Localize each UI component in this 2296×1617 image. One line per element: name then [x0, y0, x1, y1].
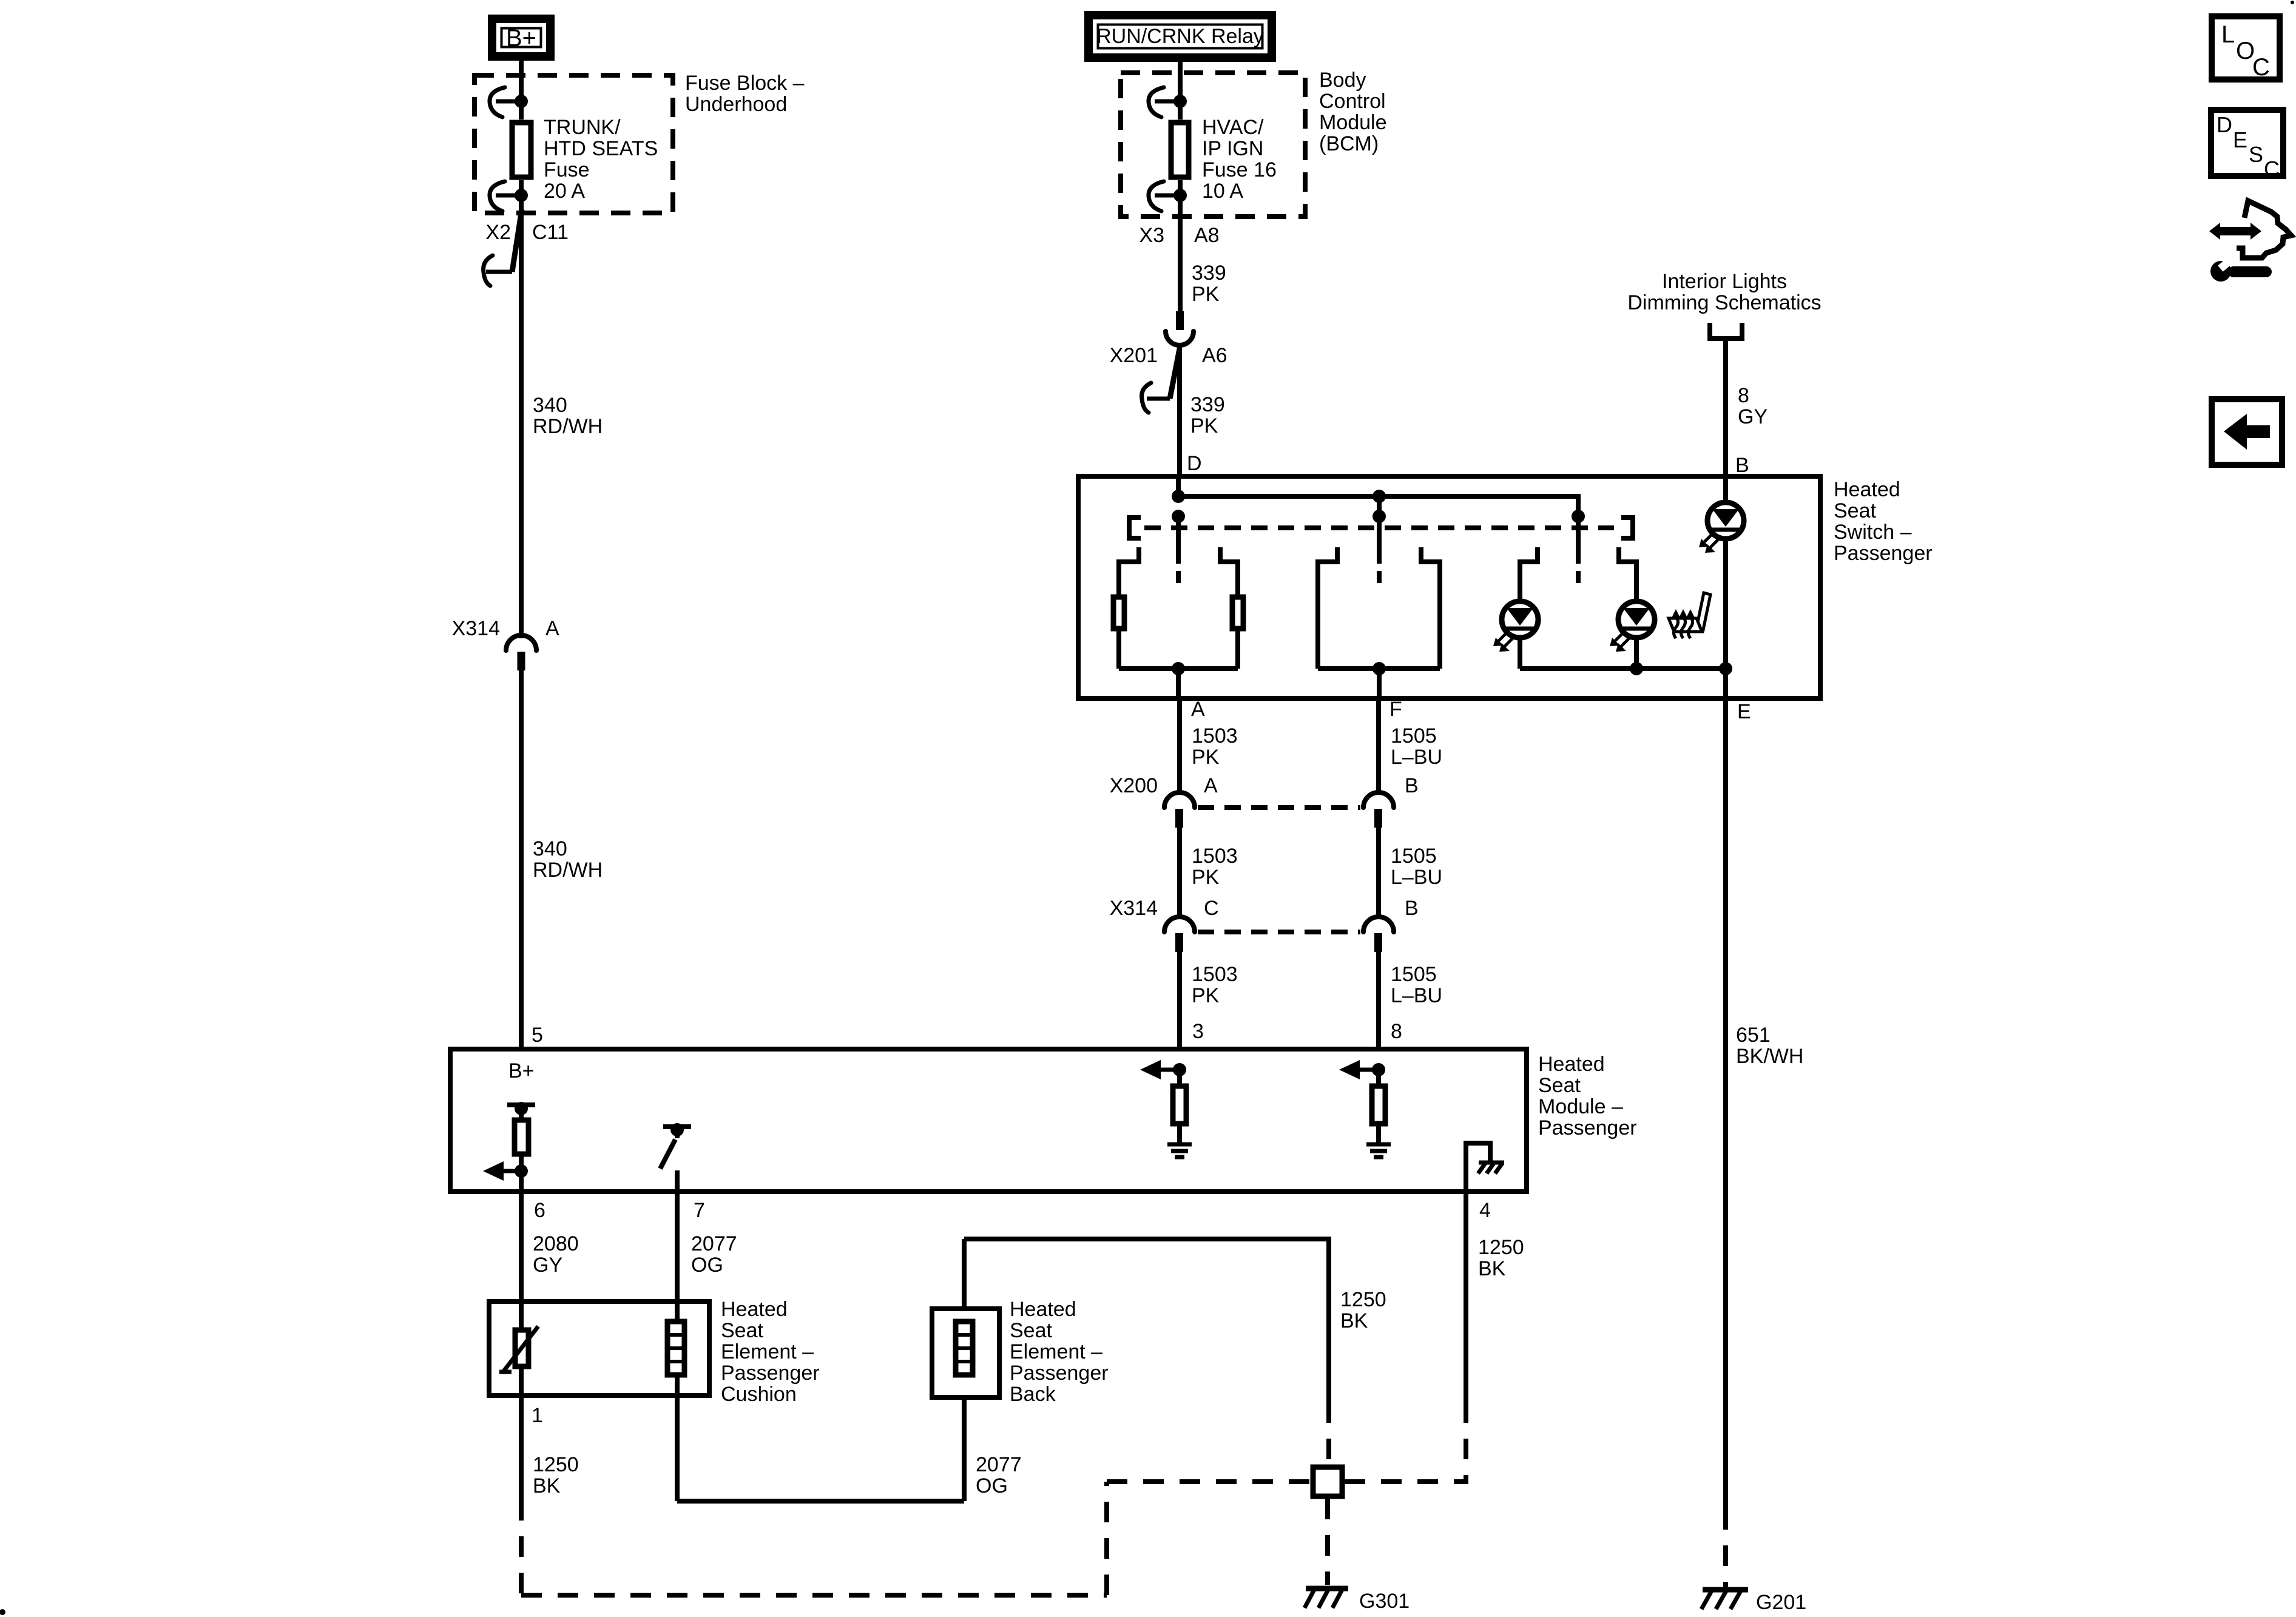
svg-text:X314: X314 — [452, 617, 500, 640]
svg-text:1250: 1250 — [533, 1453, 579, 1476]
svg-text:A: A — [1191, 698, 1205, 721]
svg-text:Element –: Element – — [1010, 1340, 1102, 1363]
svg-text:Passenger: Passenger — [1538, 1116, 1637, 1139]
svg-text:L: L — [2221, 21, 2235, 48]
svg-text:651: 651 — [1736, 1024, 1771, 1047]
svg-text:A: A — [545, 617, 559, 640]
svg-text:Heated: Heated — [721, 1298, 788, 1321]
svg-text:E: E — [1737, 700, 1751, 723]
svg-text:Heated: Heated — [1834, 478, 1900, 501]
svg-text:Underhood: Underhood — [685, 93, 787, 116]
svg-text:Fuse 16: Fuse 16 — [1202, 158, 1277, 181]
svg-text:20 A: 20 A — [544, 180, 585, 203]
svg-text:PK: PK — [1190, 414, 1218, 437]
svg-text:Seat: Seat — [721, 1319, 763, 1342]
svg-text:Switch –: Switch – — [1834, 521, 1912, 544]
svg-text:X3: X3 — [1139, 224, 1164, 247]
svg-text:F: F — [1389, 698, 1402, 721]
svg-text:Passenger: Passenger — [1834, 542, 1933, 565]
svg-text:Seat: Seat — [1010, 1319, 1052, 1342]
svg-text:HVAC/: HVAC/ — [1202, 116, 1264, 139]
svg-text:TRUNK/: TRUNK/ — [544, 116, 621, 139]
svg-text:B+: B+ — [506, 25, 536, 52]
svg-text:PK: PK — [1192, 866, 1220, 889]
svg-text:5: 5 — [532, 1024, 543, 1047]
svg-text:C: C — [2264, 157, 2280, 181]
svg-text:OG: OG — [976, 1474, 1008, 1497]
svg-text:A6: A6 — [1202, 344, 1227, 367]
svg-text:Heated: Heated — [1010, 1298, 1076, 1321]
svg-text:BK: BK — [533, 1474, 561, 1497]
svg-text:Interior Lights: Interior Lights — [1662, 270, 1787, 293]
svg-text:L–BU: L–BU — [1391, 746, 1442, 769]
svg-text:6: 6 — [534, 1199, 545, 1222]
svg-text:1505: 1505 — [1391, 724, 1437, 748]
svg-text:8: 8 — [1391, 1020, 1402, 1043]
svg-text:1503: 1503 — [1192, 724, 1238, 748]
svg-text:RUN/CRNK Relay: RUN/CRNK Relay — [1096, 25, 1264, 48]
svg-text:C: C — [2252, 54, 2270, 81]
svg-text:S: S — [2249, 142, 2263, 167]
svg-text:G301: G301 — [1359, 1590, 1410, 1613]
svg-text:Fuse Block –: Fuse Block – — [685, 72, 805, 95]
svg-text:Seat: Seat — [1834, 499, 1876, 522]
svg-text:B: B — [1735, 454, 1749, 477]
svg-text:RD/WH: RD/WH — [533, 859, 603, 882]
svg-text:C: C — [1204, 897, 1219, 920]
svg-text:1250: 1250 — [1478, 1236, 1524, 1259]
svg-text:PK: PK — [1192, 984, 1220, 1007]
svg-text:Seat: Seat — [1538, 1074, 1581, 1097]
svg-text:2080: 2080 — [533, 1232, 579, 1255]
svg-text:D: D — [1187, 452, 1202, 475]
svg-text:B+: B+ — [508, 1059, 535, 1082]
svg-text:Cushion: Cushion — [721, 1383, 797, 1406]
svg-text:PK: PK — [1192, 283, 1220, 306]
svg-text:8: 8 — [1738, 384, 1749, 407]
svg-text:L–BU: L–BU — [1391, 984, 1442, 1007]
svg-text:E: E — [2233, 127, 2247, 152]
svg-text:G201: G201 — [1756, 1591, 1806, 1614]
svg-text:339: 339 — [1192, 262, 1226, 285]
svg-text:OG: OG — [691, 1254, 723, 1277]
svg-text:PK: PK — [1192, 746, 1220, 769]
svg-text:Module –: Module – — [1538, 1095, 1623, 1118]
svg-text:BK: BK — [1340, 1309, 1368, 1332]
svg-text:Dimming Schematics: Dimming Schematics — [1627, 291, 1821, 314]
svg-text:A: A — [1204, 774, 1218, 797]
svg-text:BK: BK — [1478, 1257, 1506, 1280]
svg-text:Passenger: Passenger — [721, 1362, 820, 1385]
svg-text:7: 7 — [694, 1199, 705, 1222]
svg-text:IP IGN: IP IGN — [1202, 137, 1263, 160]
svg-text:X201: X201 — [1110, 344, 1158, 367]
svg-text:X200: X200 — [1110, 774, 1158, 797]
svg-text:A8: A8 — [1194, 224, 1220, 247]
svg-text:B: B — [1405, 774, 1419, 797]
svg-text:(BCM): (BCM) — [1319, 132, 1379, 155]
svg-text:339: 339 — [1190, 393, 1225, 416]
svg-text:Passenger: Passenger — [1010, 1362, 1109, 1385]
svg-text:HTD SEATS: HTD SEATS — [544, 137, 658, 160]
svg-text:Body: Body — [1319, 69, 1366, 92]
svg-text:2077: 2077 — [976, 1453, 1022, 1476]
svg-text:GY: GY — [533, 1254, 562, 1277]
svg-text:L–BU: L–BU — [1391, 866, 1442, 889]
svg-text:4: 4 — [1479, 1199, 1491, 1222]
svg-text:340: 340 — [533, 394, 567, 417]
svg-text:340: 340 — [533, 837, 567, 860]
svg-text:10 A: 10 A — [1202, 180, 1243, 203]
svg-text:RD/WH: RD/WH — [533, 415, 603, 438]
svg-text:1503: 1503 — [1192, 845, 1238, 868]
svg-text:1503: 1503 — [1192, 963, 1238, 986]
svg-text:Element –: Element – — [721, 1340, 814, 1363]
svg-text:C11: C11 — [532, 221, 569, 244]
svg-text:Fuse: Fuse — [544, 158, 590, 181]
svg-text:Back: Back — [1010, 1383, 1056, 1406]
svg-text:1250: 1250 — [1340, 1288, 1386, 1311]
svg-text:GY: GY — [1738, 405, 1768, 428]
svg-text:D: D — [2217, 112, 2232, 137]
svg-text:Module: Module — [1319, 111, 1387, 134]
svg-text:1505: 1505 — [1391, 963, 1437, 986]
svg-text:X314: X314 — [1110, 897, 1158, 920]
svg-text:1505: 1505 — [1391, 845, 1437, 868]
svg-text:Control: Control — [1319, 90, 1386, 113]
svg-text:B: B — [1405, 897, 1419, 920]
svg-text:2077: 2077 — [691, 1232, 737, 1255]
svg-text:BK/WH: BK/WH — [1736, 1045, 1803, 1068]
svg-text:Heated: Heated — [1538, 1053, 1605, 1076]
svg-text:X2: X2 — [485, 221, 511, 244]
svg-text:1: 1 — [532, 1404, 543, 1427]
svg-text:3: 3 — [1192, 1020, 1204, 1043]
